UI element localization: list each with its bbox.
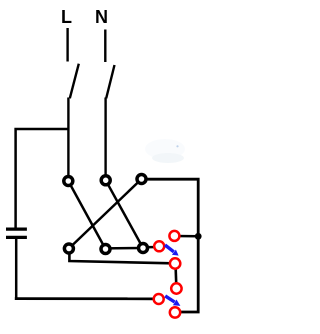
- terminal T2: [101, 176, 110, 185]
- relay contact A (red): [154, 241, 164, 251]
- wire T3 to right rail: [142, 179, 199, 312]
- capacitor C1 top plate: [6, 228, 27, 231]
- switch SW-L blade: [70, 64, 79, 99]
- wire cross C (T2 to B3): [106, 180, 143, 248]
- wire N feed: [104, 30, 106, 63]
- wire B3 to contact A: [143, 246, 159, 249]
- erased ghost smudge: [145, 139, 185, 163]
- terminal B3: [139, 244, 148, 253]
- wire N lower: [104, 98, 106, 181]
- wire contact B to rail junction: [174, 235, 199, 238]
- wire L lower: [67, 98, 69, 182]
- terminal T1: [64, 177, 73, 186]
- terminal T3: [137, 175, 146, 184]
- wire contact C to contact D: [174, 264, 177, 289]
- wire B2 to B3: [106, 247, 144, 250]
- relay contact D (red): [171, 283, 181, 293]
- relay contact F (red): [170, 307, 180, 317]
- svg-text:N: N: [95, 7, 108, 27]
- wire L feed: [66, 28, 68, 62]
- terminal B2: [101, 245, 110, 254]
- terminal B1: [64, 244, 73, 253]
- moving blade 2 (blue arrow E to F): [165, 296, 180, 306]
- switch SW-N blade: [106, 65, 114, 98]
- relay contact B (red): [169, 231, 179, 241]
- wire B1 stub and bus to contact C: [69, 249, 172, 264]
- wire cross A (T1 to B2): [68, 181, 105, 249]
- moving blade 1 (blue arrow A to C): [165, 245, 179, 256]
- wire left branch: [16, 129, 69, 228]
- capacitor C1 bottom plate: [6, 236, 27, 239]
- relay contact E (red): [154, 294, 164, 304]
- relay contact C (red): [170, 258, 180, 268]
- svg-text:L: L: [61, 7, 72, 27]
- wire bottom run: [15, 297, 159, 300]
- junction dot on right rail: [195, 233, 202, 240]
- wire cross B (T3 to B1): [69, 179, 142, 249]
- wire left rail lower: [15, 239, 18, 298]
